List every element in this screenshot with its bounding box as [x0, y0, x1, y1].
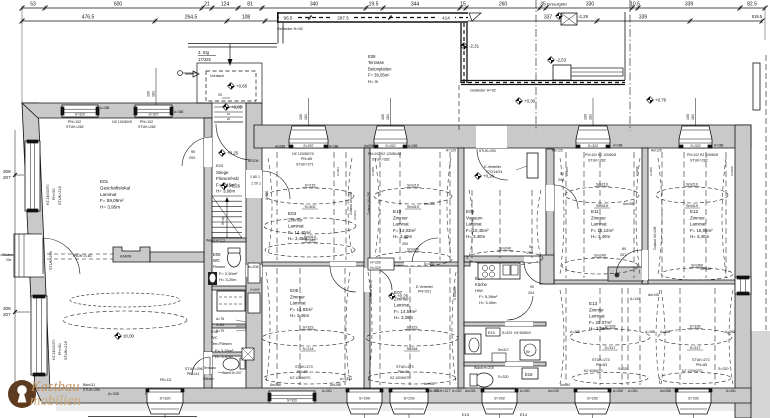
svg-text:Wand H=207: Wand H=207 — [222, 371, 242, 375]
svg-text:S=284: S=284 — [406, 347, 417, 351]
E11 door arc — [616, 250, 642, 276]
svg-text:H= 3,39m: H= 3,39m — [394, 315, 414, 320]
right edge wall piece — [753, 63, 760, 110]
window bottom BW5 S=292 — [676, 389, 711, 403]
svg-text:340: 340 — [310, 2, 319, 8]
svg-text:Laminat: Laminat — [690, 222, 706, 227]
svg-text:A=280: A=280 — [565, 167, 569, 176]
E04 lens bottom — [265, 243, 355, 257]
svg-text:STUK=273: STUK=273 — [295, 365, 313, 369]
neighbour building bottom-right — [751, 331, 770, 418]
svg-text:Am288: Am288 — [660, 389, 671, 393]
door gap E04 — [246, 170, 262, 198]
E05 span curves — [266, 272, 270, 384]
kamin block — [113, 247, 150, 262]
svg-text:Stiege: Stiege — [216, 170, 229, 175]
left door opening white — [26, 234, 44, 277]
svg-text:STUK=273: STUK=273 — [396, 365, 414, 369]
window bottom BW3 S=292 — [482, 389, 517, 403]
E10 vertical dashed — [379, 152, 381, 260]
svg-text:S=320: S=320 — [287, 399, 297, 403]
svg-text:PN=102 HZ 100/60/8: PN=102 HZ 100/60/8 — [687, 153, 718, 157]
svg-text:3. Stg: 3. Stg — [198, 50, 210, 55]
svg-text:Am288: Am288 — [424, 202, 435, 206]
E04 lens top — [266, 188, 354, 204]
svg-text:S=299: S=299 — [403, 397, 414, 401]
svg-text:100: 100 — [686, 114, 690, 120]
E09 entrance door arc — [477, 149, 508, 180]
svg-text:PN=102: PN=102 — [140, 120, 153, 124]
window top TW2 S=322 — [374, 126, 407, 148]
svg-text:STUK=218: STUK=218 — [58, 186, 62, 205]
svg-text:339: 339 — [685, 2, 694, 8]
svg-text:Wand H=215: Wand H=215 — [474, 366, 494, 370]
wall left (slanted outer wall E01) — [22, 103, 50, 390]
svg-text:Laminat: Laminat — [100, 192, 117, 197]
svg-text:Sm210: Sm210 — [686, 183, 698, 187]
svg-text:207: 207 — [3, 312, 11, 317]
svg-text:Zimmer: Zimmer — [591, 215, 606, 220]
window top TW4 S=322 — [679, 126, 712, 148]
svg-text:Fliesen: Fliesen — [203, 377, 214, 381]
door gap E09-E11 — [546, 185, 554, 211]
svg-text:A=326: A=326 — [108, 392, 119, 396]
E07 door arc+gap — [364, 268, 370, 292]
svg-text:S=345: S=345 — [304, 239, 315, 243]
dimension row 2 — [22, 20, 277, 22]
svg-text:S=317: S=317 — [604, 346, 615, 350]
svg-text:TRUK=3,81: TRUK=3,81 — [72, 254, 92, 258]
wall E01 right / Stiege left — [204, 118, 212, 390]
kamin dashed leader — [47, 253, 113, 255]
svg-text:Küche: Küche — [475, 282, 488, 287]
svg-text:Zimmer: Zimmer — [589, 307, 604, 312]
svg-text:PN=80: PN=80 — [696, 363, 707, 367]
svg-text:E-Verteiler: E-Verteiler — [484, 165, 502, 169]
svg-text:S=317: S=317 — [689, 346, 700, 350]
svg-text:337: 337 — [544, 15, 553, 21]
svg-text:77/214/34: 77/214/34 — [486, 170, 502, 174]
window bottom BW2 S=299 — [390, 389, 428, 403]
E02 shower box — [242, 348, 254, 360]
svg-text:KZ 100/60/70: KZ 100/60/70 — [390, 376, 410, 380]
svg-text:Am281: Am281 — [465, 389, 476, 393]
property dashed line right x766 — [765, 55, 767, 330]
svg-text:A=206: A=206 — [248, 265, 259, 269]
svg-text:PN=80: PN=80 — [398, 370, 409, 374]
svg-text:HZ 120/80/70: HZ 120/80/70 — [292, 152, 314, 156]
E11 lens top — [565, 187, 639, 203]
svg-text:S=297: S=297 — [303, 144, 313, 148]
window E01 top 1 — [62, 105, 98, 117]
E12 lens top — [656, 187, 728, 203]
svg-text:S=320: S=320 — [159, 397, 170, 401]
svg-text:Laminat: Laminat — [591, 222, 607, 227]
svg-text:Am288: Am288 — [270, 383, 281, 387]
svg-text:Am140: Am140 — [560, 383, 570, 387]
parapet H=330 box — [368, 258, 394, 270]
svg-text:A=288: A=288 — [613, 389, 623, 393]
railing horizontal lower (Gelaender) — [461, 80, 625, 82]
svg-text:Am125: Am125 — [552, 149, 563, 153]
door gap E11-E12 — [642, 250, 648, 280]
E12 span curves — [658, 158, 662, 274]
svg-text:F= 15,12m²: F= 15,12m² — [591, 228, 614, 233]
svg-text:F= 59,09m²: F= 59,09m² — [100, 198, 124, 203]
wall E04|E10 — [364, 148, 370, 388]
elevation -2,53 — [548, 57, 555, 64]
svg-text:201: 201 — [620, 253, 626, 257]
svg-text:10.5: 10.5 — [630, 2, 640, 8]
svg-text:Am288: Am288 — [330, 383, 341, 387]
svg-text:A=125: A=125 — [446, 149, 456, 153]
wall kueche|bad — [464, 322, 546, 326]
svg-text:H= 3,40m: H= 3,40m — [479, 300, 497, 305]
door gap E02 — [204, 352, 212, 374]
svg-text:PB=111: PB=111 — [160, 378, 172, 382]
svg-text:Fliesen/Hdz: Fliesen/Hdz — [216, 176, 239, 181]
svg-text:90: 90 — [191, 150, 195, 154]
window bottom flat S=320 — [269, 391, 315, 403]
railing vertical right side — [460, 23, 462, 83]
svg-text:S=215: S=215 — [304, 184, 315, 188]
svg-text:15: 15 — [460, 2, 466, 8]
door gap E09 entrance — [476, 126, 507, 148]
svg-text:Sm317: Sm317 — [498, 348, 509, 352]
svg-text:A=269: A=269 — [408, 144, 418, 148]
window bottom BW1 S=299 — [347, 389, 382, 403]
elevation -2,29 — [556, 13, 563, 20]
svg-text:S=302: S=302 — [304, 205, 315, 209]
window top TW3 S=322 — [576, 126, 610, 148]
svg-text:F= 39,05m²: F= 39,05m² — [368, 73, 390, 78]
svg-text:F= 3,26m²: F= 3,26m² — [215, 348, 234, 353]
kueche counter — [478, 263, 520, 279]
svg-text:260: 260 — [499, 2, 508, 8]
svg-text:308: 308 — [3, 306, 11, 311]
terrace drain box — [553, 65, 571, 80]
svg-text:F= 14,93m²: F= 14,93m² — [290, 307, 313, 312]
window E01 top 2 — [135, 105, 172, 117]
svg-text:181: 181 — [304, 114, 308, 120]
svg-text:A=288: A=288 — [645, 330, 655, 334]
svg-text:E-Verteilet: E-Verteilet — [416, 285, 433, 289]
svg-text:S=323: S=323 — [406, 326, 417, 330]
E01 dashed lens — [63, 311, 187, 329]
svg-text:WC: WC — [213, 258, 220, 263]
elevation +-0,00 — [115, 333, 122, 340]
E12 lens bottom — [661, 268, 733, 280]
svg-text:KAMIN: KAMIN — [120, 255, 132, 259]
railing band top (Gelaender) — [277, 12, 468, 23]
svg-text:100: 100 — [584, 114, 588, 120]
svg-text:A=284: A=284 — [336, 167, 340, 176]
svg-text:HZ 100/60/5: HZ 100/60/5 — [112, 120, 132, 124]
door gap bad-wc — [505, 362, 533, 366]
svg-text:Am125: Am125 — [651, 149, 662, 153]
svg-text:A=79: A=79 — [216, 329, 224, 333]
E13 vertical dashed — [565, 288, 567, 385]
washing machine — [520, 340, 540, 360]
wall E11|E12 — [642, 148, 648, 284]
E09 lens bottom — [467, 251, 543, 265]
svg-text:PN=201: PN=201 — [418, 290, 431, 294]
svg-text:-2,31: -2,31 — [469, 44, 480, 49]
E10 lens top — [374, 188, 452, 204]
svg-text:344: 344 — [411, 2, 420, 8]
E13 span curves L — [560, 290, 564, 384]
svg-text:+0,66: +0,66 — [236, 84, 248, 89]
svg-text:E08: E08 — [368, 54, 376, 59]
svg-text:17/325: 17/325 — [198, 57, 211, 62]
svg-text:A=288: A=288 — [725, 330, 735, 334]
svg-text:100: 100 — [147, 91, 151, 97]
svg-text:108: 108 — [242, 15, 251, 21]
svg-text:200: 200 — [189, 156, 195, 160]
svg-text:E03: E03 — [216, 163, 224, 168]
svg-text:E14: E14 — [520, 412, 528, 417]
svg-text:H= m: H= m — [368, 79, 379, 84]
terrace edge vertical x625 — [624, 12, 626, 80]
svg-text:Fliesen: Fliesen — [213, 265, 225, 269]
svg-text:F= 15,95m²: F= 15,95m² — [690, 228, 713, 233]
svg-text:181: 181 — [589, 114, 593, 120]
elevation +0,05 — [223, 104, 230, 111]
svg-text:A=140: A=140 — [630, 297, 640, 301]
svg-text:S=328: S=328 — [604, 325, 615, 329]
svg-text:STUK=271: STUK=271 — [296, 163, 314, 167]
E01 door arc (from stiege) — [182, 137, 212, 166]
svg-text:KZ 120/60/70: KZ 120/60/70 — [682, 369, 702, 373]
svg-text:A=281: A=281 — [452, 389, 462, 393]
E13 lens left — [570, 329, 650, 345]
svg-text:STUK=282: STUK=282 — [372, 158, 390, 162]
svg-text:FH=50: FH=50 — [52, 188, 56, 200]
svg-text:1 20 1: 1 20 1 — [251, 182, 261, 186]
svg-text:204: 204 — [528, 291, 534, 295]
svg-text:E09: E09 — [466, 209, 475, 214]
svg-text:S=320: S=320 — [718, 367, 729, 371]
svg-text:90: 90 — [404, 236, 408, 240]
svg-text:A=281: A=281 — [726, 389, 736, 393]
svg-text:207: 207 — [3, 175, 11, 180]
svg-text:PN=102: PN=102 — [68, 120, 81, 124]
window2 100/181 label — [155, 68, 157, 105]
svg-text:Sm240: Sm240 — [499, 247, 511, 251]
E07 span curves — [368, 272, 372, 384]
E05 lens bottom — [264, 372, 352, 384]
elevation +0,26 stiege — [221, 183, 228, 190]
svg-text:W: W — [526, 349, 530, 354]
E13 lens right — [658, 329, 732, 345]
E05 lens top — [262, 330, 354, 346]
E10 door arc — [412, 238, 438, 262]
door gap E01 — [204, 137, 212, 167]
terrace inner dashed x459 — [458, 85, 460, 131]
svg-text:S=307: S=307 — [149, 113, 159, 117]
low wall entrance-terrace — [188, 43, 277, 45]
svg-text:Zimmer: Zimmer — [393, 215, 408, 220]
svg-text:Sm210: Sm210 — [407, 184, 419, 188]
wall E09|E11 — [546, 149, 554, 284]
svg-text:Am288: Am288 — [275, 145, 285, 149]
svg-text:Am288: Am288 — [623, 202, 634, 206]
window left wall lower — [31, 296, 47, 375]
svg-text:A=281: A=281 — [520, 389, 530, 393]
svg-text:Zuband UK=2: Zuband UK=2 — [369, 280, 373, 300]
svg-text:264.5: 264.5 — [185, 15, 198, 21]
svg-text:STUK=273: STUK=273 — [692, 358, 710, 362]
svg-text:Vorraum: Vorraum — [466, 215, 483, 220]
E06 sink — [208, 272, 217, 285]
wc toilet — [475, 373, 493, 387]
svg-text:Terrasse: Terrasse — [368, 60, 385, 65]
E07 lens top — [366, 330, 458, 346]
svg-text:Zimmer: Zimmer — [288, 217, 303, 222]
svg-text:E01: E01 — [100, 179, 109, 184]
svg-text:S=214: S=214 — [302, 347, 313, 351]
wall bottom band — [35, 388, 751, 403]
svg-text:Sm240: Sm240 — [594, 254, 606, 258]
window bottom BW0 S=320 — [147, 389, 183, 403]
svg-text:STUK=218: STUK=218 — [64, 341, 68, 360]
svg-text:S=323: S=323 — [302, 326, 313, 330]
svg-text:181: 181 — [386, 114, 390, 120]
wall rooms top band — [254, 125, 751, 148]
svg-text:82.5: 82.5 — [747, 2, 757, 8]
svg-text:E16: E16 — [525, 372, 533, 377]
svg-text:S=299: S=299 — [359, 397, 370, 401]
svg-text:Am140: Am140 — [548, 389, 559, 393]
elevation +0,30 — [516, 98, 523, 105]
logo circle keyhole — [8, 380, 36, 408]
shaft boxes in stiege right wall — [248, 263, 260, 283]
vordach dashed box — [206, 71, 256, 101]
elevation +0,66 — [228, 83, 235, 90]
svg-text:S=323: S=323 — [502, 331, 512, 335]
window left wall upper — [25, 141, 40, 211]
svg-text:Laminat: Laminat — [393, 222, 409, 227]
wall E10|E09/Kueche — [458, 148, 464, 388]
dimension row 1 — [22, 7, 765, 9]
door gap kueche top — [524, 257, 544, 263]
svg-text:600: 600 — [114, 2, 123, 8]
drain funnel symbol — [469, 13, 481, 21]
E07 vertical dashed — [379, 268, 381, 385]
svg-text:S=328: S=328 — [689, 325, 700, 329]
svg-text:Terrazzo: Terrazzo — [203, 366, 216, 370]
svg-text:A=358: A=358 — [174, 110, 184, 114]
svg-text:10: 10 — [227, 112, 231, 116]
svg-text:STUK=282: STUK=282 — [138, 125, 156, 129]
wall mid right (E11,E12/E13) — [554, 280, 735, 284]
svg-text:STUK=296: STUK=296 — [83, 388, 100, 392]
wall right outer — [735, 125, 751, 418]
svg-text:E12: E12 — [690, 209, 699, 214]
E06 toilet — [228, 249, 241, 267]
svg-text:19.5: 19.5 — [369, 2, 379, 8]
elevation +0,26 E07 — [389, 293, 396, 300]
stiege shower box — [217, 291, 245, 311]
column block with chimney dot — [608, 267, 643, 281]
window bottom BW4 S=292 — [575, 389, 610, 403]
svg-text:A=281: A=281 — [430, 389, 440, 393]
E01 bottom line y417 — [88, 416, 197, 418]
svg-text:90: 90 — [529, 245, 533, 249]
svg-text:mobilien: mobilien — [30, 393, 81, 409]
svg-text:STUK=282: STUK=282 — [690, 159, 708, 163]
svg-text:A=280: A=280 — [371, 167, 375, 176]
svg-text:308: 308 — [3, 169, 11, 174]
svg-text:Bäm111: Bäm111 — [83, 383, 95, 387]
svg-text:181: 181 — [152, 91, 156, 97]
svg-text:Laminat: Laminat — [288, 224, 304, 229]
svg-text:Wand H=2,3: Wand H=2,3 — [206, 239, 225, 243]
svg-text:Zimmer: Zimmer — [290, 294, 305, 299]
svg-text:HZ 240/30/70: HZ 240/30/70 — [46, 184, 50, 205]
E12 vertical dashed — [661, 152, 663, 278]
entrance steps — [214, 106, 243, 108]
svg-text:S=421: S=421 — [424, 262, 434, 266]
svg-text:PN=102 HZ 120/80/A6: PN=102 HZ 120/80/A6 — [368, 152, 401, 156]
svg-text:Am263: Am263 — [353, 210, 357, 220]
svg-text:Sm319: Sm319 — [407, 205, 419, 209]
witness lines — [21, 8, 23, 103]
left witness vertical line — [14, 130, 16, 388]
property dash-dot line x630 — [629, 0, 631, 131]
svg-text:124: 124 — [221, 2, 230, 8]
svg-text:476.5: 476.5 — [82, 15, 95, 21]
E09 vertical dashed — [471, 190, 473, 258]
svg-text:S=320: S=320 — [498, 375, 509, 379]
door gap E10 — [404, 262, 430, 266]
svg-text:Laminat: Laminat — [466, 222, 482, 227]
svg-text:S=320: S=320 — [618, 367, 629, 371]
left entrance porch (Stufen) — [14, 234, 31, 277]
svg-text:1 80 1: 1 80 1 — [250, 175, 260, 179]
svg-text:STUK=282: STUK=282 — [588, 159, 606, 163]
door swing marker triangle — [193, 71, 199, 77]
svg-text:H= 3,95m: H= 3,95m — [100, 205, 120, 210]
svg-text:Sm380: Sm380 — [700, 267, 711, 271]
svg-text:+0,76: +0,76 — [655, 98, 667, 103]
wall Stiege right thick — [246, 103, 262, 390]
svg-text:Terr./Fliesen: Terr./Fliesen — [211, 342, 232, 346]
svg-text:PN=102 HZ 100/60/8: PN=102 HZ 100/60/8 — [585, 153, 616, 157]
entrance outline — [197, 63, 262, 103]
svg-text:A=280: A=280 — [265, 190, 269, 200]
svg-text:S=292: S=292 — [494, 397, 505, 401]
svg-text:Laminat: Laminat — [589, 314, 605, 319]
svg-text:A=288: A=288 — [570, 330, 580, 334]
svg-text:200: 200 — [402, 242, 408, 246]
svg-text:414: 414 — [442, 16, 450, 21]
svg-text:Zimmer: Zimmer — [690, 215, 705, 220]
svg-text:Zuband UK=248: Zuband UK=248 — [653, 226, 657, 250]
E13 dashed pair — [621, 288, 623, 385]
window top TW1 S=297 — [289, 126, 328, 148]
wall E02 top divider — [212, 324, 246, 328]
entrance arrow — [229, 44, 231, 62]
svg-text:PB=111: PB=111 — [187, 372, 199, 376]
svg-text:100: 100 — [299, 114, 303, 120]
svg-text:Am280: Am280 — [730, 166, 734, 176]
svg-text:Geländer H=92: Geländer H=92 — [470, 89, 496, 93]
svg-text:E07: E07 — [394, 290, 403, 295]
svg-text:-2,29: -2,29 — [578, 14, 589, 19]
svg-text:F= 5,38m²: F= 5,38m² — [479, 294, 498, 299]
svg-text:330: 330 — [586, 2, 595, 8]
